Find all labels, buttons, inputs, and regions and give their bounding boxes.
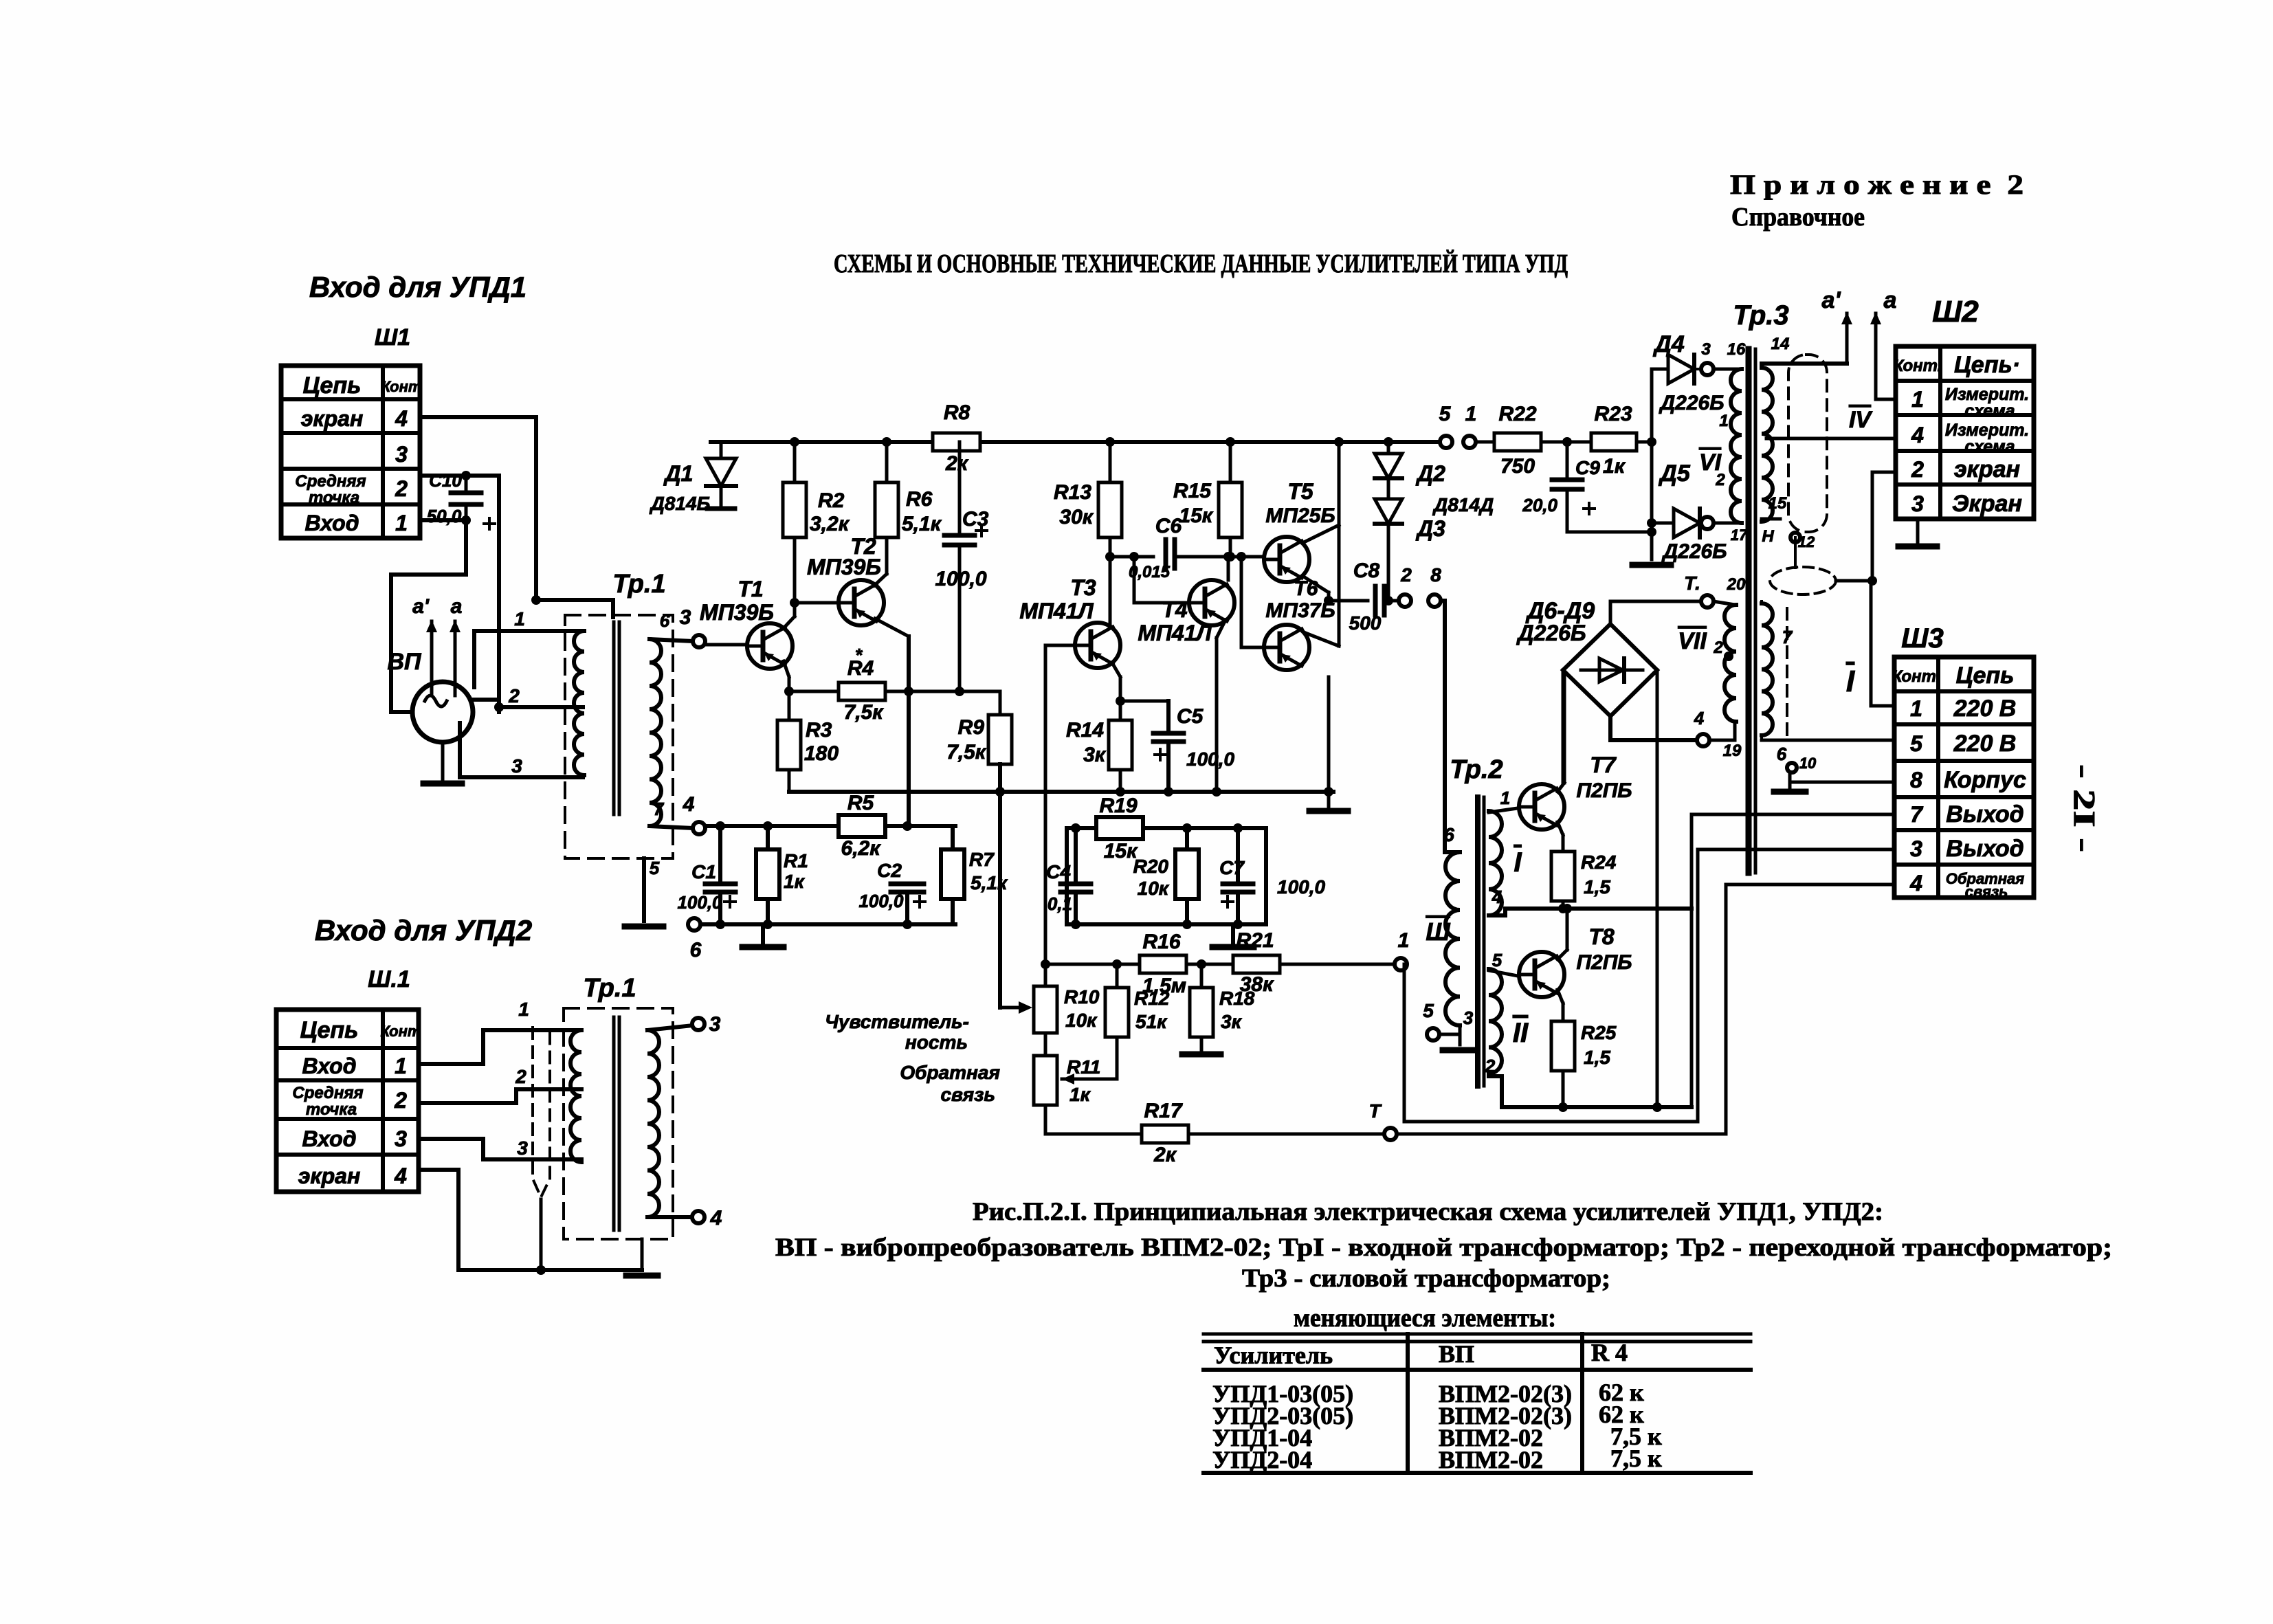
svg-text:Д226Б: Д226Б (1659, 392, 1725, 414)
svg-text:Ш3: Ш3 (1901, 623, 1943, 654)
svg-text:П2ПБ: П2ПБ (1576, 951, 1632, 974)
svg-text:100,0: 100,0 (935, 568, 986, 590)
svg-text:Д814Б: Д814Б (650, 493, 711, 514)
svg-text:R17: R17 (1144, 1100, 1182, 1122)
svg-text:Тр.1: Тр.1 (583, 974, 636, 1003)
svg-text:Ш1: Ш1 (375, 324, 410, 351)
svg-text:30к: 30к (1059, 506, 1094, 529)
svg-text:2: 2 (395, 476, 408, 501)
svg-text:R25: R25 (1581, 1022, 1617, 1043)
svg-text:3: 3 (395, 1126, 407, 1151)
svg-text:6: 6 (690, 939, 702, 961)
svg-text:Экран: Экран (1952, 491, 2022, 517)
svg-text:Тр.1: Тр.1 (612, 570, 665, 599)
svg-text:а': а' (412, 595, 430, 618)
svg-text:7: 7 (654, 799, 665, 819)
svg-text:180: 180 (804, 742, 839, 765)
svg-text:Т.: Т. (1684, 572, 1700, 594)
svg-text:Выход: Выход (1946, 836, 2023, 862)
svg-text:Д2: Д2 (1415, 461, 1445, 486)
svg-text:Обратная: Обратная (900, 1062, 1000, 1083)
svg-text:8: 8 (1910, 768, 1922, 792)
svg-text:С7: С7 (1219, 857, 1245, 878)
svg-text:20,0: 20,0 (1522, 495, 1557, 515)
svg-text:6: 6 (1777, 744, 1787, 764)
svg-text:20: 20 (1727, 575, 1746, 594)
svg-text:R12: R12 (1134, 988, 1170, 1009)
svg-text:Выход: Выход (1946, 801, 2023, 827)
svg-text:1к: 1к (1069, 1084, 1091, 1105)
svg-text:а: а (1884, 287, 1897, 313)
svg-text:3к: 3к (1083, 744, 1107, 766)
svg-text:схема: схема (1964, 401, 2015, 421)
svg-text:R24: R24 (1581, 852, 1617, 873)
svg-text:Т6: Т6 (1294, 577, 1318, 600)
svg-text:Д814Д: Д814Д (1432, 494, 1494, 515)
svg-text:I: I (1846, 665, 1855, 698)
svg-text:меняющиеся элементы:: меняющиеся элементы: (1294, 1304, 1556, 1333)
svg-text:1: 1 (1500, 788, 1510, 808)
svg-text:15: 15 (1768, 494, 1787, 513)
svg-text:1: 1 (1910, 696, 1922, 721)
svg-text:Вход: Вход (302, 1054, 356, 1078)
svg-text:3: 3 (1911, 491, 1924, 516)
svg-text:7,5к: 7,5к (844, 701, 885, 724)
svg-text:R20: R20 (1133, 856, 1169, 877)
svg-text:100,0: 100,0 (677, 892, 722, 913)
svg-text:Вход для УПД1: Вход для УПД1 (309, 271, 526, 303)
svg-text:R9: R9 (958, 716, 985, 739)
svg-text:Ш.1: Ш.1 (368, 966, 410, 992)
svg-text:3: 3 (1463, 1008, 1474, 1028)
svg-text:2: 2 (1911, 457, 1924, 482)
svg-text:5: 5 (650, 858, 660, 878)
svg-text:1: 1 (514, 608, 525, 630)
svg-text:МП41Л: МП41Л (1019, 599, 1094, 623)
svg-text:Н: Н (1762, 527, 1774, 546)
svg-text:R15: R15 (1173, 480, 1212, 502)
svg-text:IV: IV (1849, 407, 1873, 433)
svg-text:220 В: 220 В (1953, 696, 2017, 722)
svg-text:2: 2 (515, 1066, 526, 1087)
svg-text:2: 2 (508, 685, 520, 707)
svg-text:С8: С8 (1353, 559, 1380, 582)
svg-text:Средняя: Средняя (295, 472, 366, 491)
svg-text:Цепь: Цепь (303, 372, 362, 399)
svg-text:Рис.П.2.I. Принципиальная элек: Рис.П.2.I. Принципиальная электрическая … (973, 1198, 1883, 1226)
svg-text:R7: R7 (969, 849, 995, 870)
svg-text:4: 4 (710, 1207, 722, 1230)
svg-text:R10: R10 (1064, 986, 1100, 1008)
svg-text:100,0: 100,0 (858, 891, 904, 911)
svg-text:Тр.3: Тр.3 (1733, 300, 1788, 331)
svg-text:Цепь·: Цепь· (1954, 352, 2020, 378)
svg-text:С3: С3 (962, 508, 989, 531)
svg-text:а: а (451, 595, 463, 618)
svg-text:VII: VII (1678, 628, 1707, 654)
svg-text:МП39Б: МП39Б (700, 600, 774, 625)
svg-text:R19: R19 (1099, 794, 1137, 817)
svg-text:Т1: Т1 (738, 577, 763, 601)
svg-text:ВП: ВП (387, 649, 422, 675)
svg-text:связь: связь (940, 1084, 995, 1105)
svg-text:10к: 10к (1138, 878, 1170, 899)
svg-text:R16: R16 (1142, 931, 1180, 953)
svg-text:1,5: 1,5 (1584, 876, 1610, 898)
svg-text:15к: 15к (1179, 504, 1213, 527)
svg-text:1: 1 (1911, 387, 1924, 412)
svg-text:Цепь: Цепь (300, 1017, 359, 1043)
svg-text:4: 4 (1492, 887, 1503, 907)
svg-text:3: 3 (511, 755, 522, 777)
svg-text:Вход для УПД2: Вход для УПД2 (315, 914, 532, 946)
svg-text:4: 4 (395, 406, 408, 431)
svg-text:ВПМ2-02: ВПМ2-02 (1439, 1446, 1543, 1473)
svg-text:Д226Б: Д226Б (1661, 540, 1727, 563)
svg-text:- 2I -: - 2I - (2067, 764, 2101, 852)
svg-text:Вход: Вход (302, 1126, 356, 1151)
svg-text:С5: С5 (1177, 705, 1204, 728)
svg-text:7: 7 (1910, 802, 1924, 827)
svg-text:R3: R3 (806, 719, 832, 742)
svg-text:Конт: Конт (381, 1023, 421, 1040)
svg-text:3,2к: 3,2к (810, 513, 850, 535)
svg-text:2к: 2к (945, 452, 969, 475)
svg-text:МП39Б: МП39Б (807, 555, 881, 579)
svg-text:100,0: 100,0 (1277, 876, 1325, 898)
svg-text:3: 3 (1701, 340, 1711, 359)
svg-text:3: 3 (680, 606, 691, 629)
svg-text:4: 4 (1911, 423, 1924, 447)
svg-text:МП25Б: МП25Б (1265, 504, 1335, 527)
svg-text:6: 6 (660, 610, 670, 631)
svg-text:3: 3 (1910, 836, 1922, 861)
svg-text:6: 6 (1443, 824, 1454, 845)
svg-text:14: 14 (1771, 335, 1790, 353)
svg-text:Цепь: Цепь (1956, 663, 2015, 689)
svg-text:Ш: Ш (1426, 917, 1450, 946)
svg-text:Д5: Д5 (1658, 460, 1691, 487)
svg-text:ность: ность (905, 1032, 968, 1053)
svg-text:17: 17 (1731, 526, 1749, 544)
svg-text:ВП - вибропреобразователь ВПМ2: ВП - вибропреобразователь ВПМ2-02; ТрI -… (775, 1234, 2112, 1262)
svg-text:Т4: Т4 (1162, 597, 1188, 622)
svg-text:R5: R5 (847, 792, 875, 814)
svg-text:3: 3 (517, 1137, 528, 1159)
svg-text:R13: R13 (1054, 481, 1091, 504)
svg-text:4: 4 (1909, 871, 1922, 896)
svg-text:6,2к: 6,2к (841, 837, 882, 860)
svg-text:5: 5 (1439, 403, 1452, 425)
svg-text:Тр3 - силовой трансформатор;: Тр3 - силовой трансформатор; (1242, 1265, 1610, 1293)
svg-text:Чувствитель-: Чувствитель- (825, 1011, 969, 1032)
svg-text:19: 19 (1723, 742, 1742, 760)
svg-text:а': а' (1822, 287, 1842, 313)
svg-text:Т8: Т8 (1588, 924, 1615, 949)
svg-text:10: 10 (1799, 755, 1817, 772)
svg-text:2: 2 (394, 1088, 407, 1113)
svg-text:R18: R18 (1219, 988, 1255, 1009)
svg-text:П р и л о ж е н и е 2: П р и л о ж е н и е 2 (1730, 169, 2023, 200)
svg-text:2к: 2к (1153, 1144, 1177, 1166)
svg-text:12: 12 (1798, 533, 1815, 550)
svg-text:Корпус: Корпус (1944, 767, 2026, 793)
svg-text:Конт.: Конт. (1892, 667, 1941, 686)
svg-text:1: 1 (395, 511, 408, 535)
svg-text:5,1к: 5,1к (971, 872, 1008, 893)
svg-text:1: 1 (1719, 412, 1728, 430)
svg-text:точка: точка (306, 1100, 357, 1119)
svg-text:Д3: Д3 (1415, 516, 1445, 541)
svg-text:С6: С6 (1155, 515, 1182, 537)
svg-text:R21: R21 (1236, 929, 1274, 952)
svg-text:R2: R2 (818, 489, 845, 512)
svg-text:7,5к: 7,5к (946, 741, 987, 764)
svg-text:16: 16 (1727, 340, 1746, 359)
svg-text:Тр.2: Тр.2 (1450, 755, 1503, 784)
svg-text:С4: С4 (1046, 861, 1071, 882)
svg-text:750: 750 (1500, 455, 1535, 478)
svg-text:С2: С2 (877, 860, 902, 881)
svg-text:Конт: Конт (381, 378, 422, 395)
svg-text:Т: Т (1368, 1100, 1382, 1122)
svg-text:R 4: R 4 (1591, 1339, 1628, 1366)
svg-text:5,1к: 5,1к (902, 513, 942, 535)
svg-text:Справочное: Справочное (1731, 203, 1865, 232)
svg-text:220 В: 220 В (1953, 731, 2017, 757)
svg-text:ВП: ВП (1439, 1340, 1474, 1368)
svg-text:С1: С1 (691, 861, 716, 882)
svg-text:3: 3 (395, 442, 408, 467)
svg-text:Т7: Т7 (1590, 753, 1617, 777)
svg-text:2: 2 (1485, 1056, 1496, 1076)
svg-text:500: 500 (1349, 612, 1382, 634)
svg-text:1к: 1к (1603, 455, 1626, 478)
svg-text:экран: экран (301, 406, 364, 431)
svg-text:Т5: Т5 (1287, 479, 1314, 504)
svg-text:1: 1 (1398, 929, 1410, 952)
svg-text:R1: R1 (784, 850, 808, 871)
svg-text:СХЕМЫ И ОСНОВНЫЕ ТЕХНИЧЕСКИЕ Д: СХЕМЫ И ОСНОВНЫЕ ТЕХНИЧЕСКИЕ ДАННЫЕ УСИЛ… (834, 249, 1568, 278)
svg-text:100,0: 100,0 (1186, 748, 1234, 770)
svg-text:R8: R8 (944, 401, 971, 424)
svg-text:Усилитель: Усилитель (1214, 1342, 1333, 1369)
svg-text:4: 4 (1694, 708, 1705, 728)
svg-text:С9: С9 (1575, 457, 1600, 478)
svg-text:R23: R23 (1594, 403, 1632, 425)
svg-text:5: 5 (1423, 1000, 1434, 1021)
svg-text:7,5 к: 7,5 к (1610, 1445, 1662, 1472)
svg-text:5: 5 (1492, 950, 1503, 970)
svg-text:4: 4 (683, 793, 695, 816)
svg-text:экран: экран (1954, 456, 2020, 482)
svg-text:1: 1 (1465, 403, 1477, 425)
svg-text:экран: экран (298, 1164, 361, 1188)
svg-text:П2ПБ: П2ПБ (1576, 779, 1632, 802)
svg-text:4: 4 (394, 1164, 407, 1188)
svg-text:Средняя: Средняя (292, 1084, 363, 1102)
svg-text:1: 1 (518, 999, 529, 1020)
svg-text:51к: 51к (1135, 1011, 1168, 1032)
svg-text:2: 2 (1400, 564, 1412, 586)
svg-text:3: 3 (709, 1013, 721, 1036)
svg-text:схема: схема (1964, 437, 2015, 456)
svg-text:2: 2 (1715, 471, 1725, 489)
svg-text:Д226Б: Д226Б (1516, 621, 1586, 645)
svg-text:точка: точка (309, 489, 359, 507)
svg-text:II: II (1513, 1018, 1529, 1048)
svg-text:R14: R14 (1066, 719, 1104, 742)
svg-text:Т3: Т3 (1070, 575, 1096, 600)
svg-text:3к: 3к (1221, 1011, 1243, 1032)
svg-text:8: 8 (1430, 564, 1441, 586)
svg-text:5: 5 (1910, 731, 1923, 756)
svg-text:1: 1 (395, 1054, 407, 1078)
svg-text:С10: С10 (429, 470, 462, 491)
svg-text:1,5: 1,5 (1584, 1047, 1610, 1068)
svg-text:Конт.: Конт. (1894, 357, 1942, 375)
svg-text:Вход: Вход (304, 511, 359, 535)
svg-text:50,0: 50,0 (427, 506, 462, 526)
svg-text:10к: 10к (1065, 1010, 1098, 1031)
svg-text:I: I (1514, 847, 1522, 878)
svg-text:0,1: 0,1 (1047, 893, 1072, 914)
svg-text:R11: R11 (1067, 1056, 1100, 1078)
svg-text:2: 2 (1713, 638, 1723, 657)
svg-text:Д4: Д4 (1652, 331, 1685, 357)
svg-text:R22: R22 (1498, 403, 1536, 425)
svg-text:МП41Л: МП41Л (1138, 621, 1212, 645)
svg-text:Ш2: Ш2 (1932, 295, 1979, 329)
svg-text:1к: 1к (784, 871, 806, 892)
svg-text:R6: R6 (906, 488, 933, 511)
svg-text:связь: связь (1965, 883, 2008, 900)
svg-text:УПД2-04: УПД2-04 (1212, 1446, 1312, 1473)
svg-text:Д1: Д1 (663, 461, 694, 486)
